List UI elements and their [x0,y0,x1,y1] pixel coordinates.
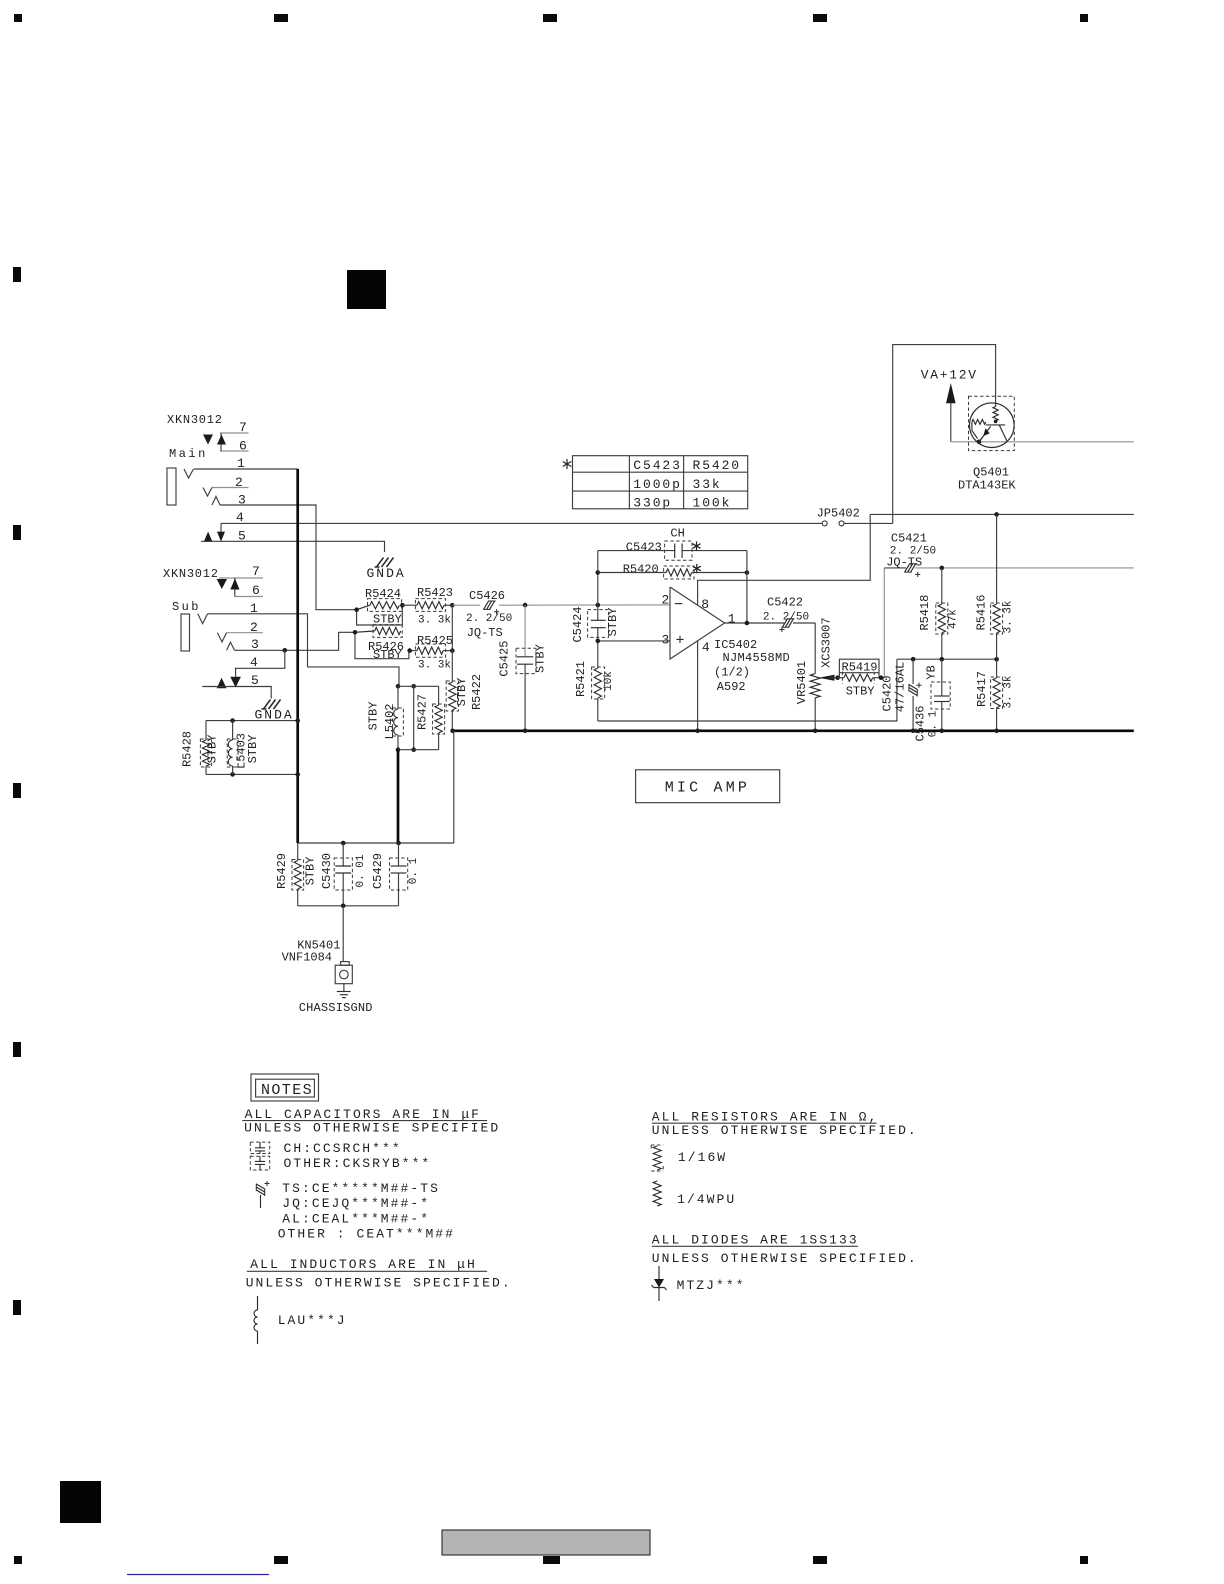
svg-text:3. 3k: 3. 3k [418,660,451,672]
svg-text:4: 4 [236,510,244,525]
svg-text:3. 3k: 3. 3k [1002,675,1014,708]
svg-text:NOTES: NOTES [261,1082,313,1099]
note zener diode symbol [658,1266,660,1283]
wire op-amp output [725,622,784,624]
wire main vertical bus from Main pin1 [296,469,299,843]
wire from ground rail down to RC filter [453,731,455,843]
svg-text:XKN3012: XKN3012 [163,567,219,581]
capacitor C5424 STBY [597,605,599,620]
wire bypass of L5402 [413,686,415,749]
svg-text:4: 4 [702,640,710,655]
svg-text:JQ-TS: JQ-TS [886,555,922,569]
wire analog ground rail [452,729,1134,732]
wire op-amp pin3 input [598,640,670,642]
feedback node vertical [597,551,599,605]
svg-text:STBY: STBY [303,857,317,886]
wire Main pin1 to bus [194,468,298,470]
wire feedback to output node [746,551,748,623]
svg-text:C5422: C5422 [767,596,803,610]
svg-text:XCS3007: XCS3007 [820,617,834,667]
svg-text:YB: YB [924,665,938,679]
inductor L5402 STBY [396,684,401,689]
svg-text:MIC AMP: MIC AMP [665,780,750,797]
svg-text:OTHER:CKSRYB***: OTHER:CKSRYB*** [284,1156,432,1171]
wire output to VR5401 [814,623,816,674]
Sub pin3 contact [227,642,235,650]
resistor R5429 STBY [297,843,299,861]
svg-text:Sub: Sub [172,600,201,614]
svg-text:1/16W: 1/16W [678,1150,727,1165]
resistor R5422 STBY vertical [451,605,453,682]
svg-text:MTZJ***: MTZJ*** [677,1278,746,1293]
svg-text:TS:CE*****M##-TS: TS:CE*****M##-TS [282,1181,440,1196]
svg-text:VA+12V: VA+12V [921,368,978,383]
capacitor C5420 47/16AL [912,659,914,684]
wire Main pin4 to JP5402 [221,522,822,524]
svg-text:R5419: R5419 [842,660,878,674]
node line mid right [897,658,997,660]
svg-text:STBY: STBY [455,678,469,707]
svg-text:7: 7 [252,564,260,579]
svg-text:R5417: R5417 [975,671,989,707]
wire bottom of RC filter [298,905,399,907]
svg-text:JQ-TS: JQ-TS [467,626,503,640]
svg-text:STBY: STBY [246,735,260,764]
svg-text:STBY: STBY [373,648,402,662]
svg-text:STBY: STBY [367,702,381,731]
wire thick drop to RC filter [397,750,400,843]
svg-text:3: 3 [662,633,670,648]
notes title box [251,1074,319,1101]
registration marks left edge [13,267,21,282]
svg-text:R5429: R5429 [275,853,289,889]
chassis ground symbol [343,984,345,992]
svg-text:47k: 47k [948,609,960,629]
svg-text:3. 3k: 3. 3k [1002,600,1014,633]
blue underline bottom-left [127,1574,269,1576]
svg-text:0. 01: 0. 01 [355,854,367,887]
wire Sub pins7-6 bracket [234,578,236,597]
Sub pin1 contact [198,614,208,624]
svg-text:C5421: C5421 [891,532,927,546]
node Sub pin3/pin4 [283,648,288,653]
svg-text:JP5402: JP5402 [817,507,860,521]
svg-text:UNLESS OTHERWISE SPECIFIED.: UNLESS OTHERWISE SPECIFIED. [652,1123,918,1138]
svg-text:ALL DIODES ARE 1SS133: ALL DIODES ARE 1SS133 [652,1233,859,1248]
wire Main pin5 to GNDA [201,541,385,552]
transistor Q5401 DTA143EK [970,403,1015,448]
svg-text:R5423: R5423 [417,586,453,600]
svg-text:C5426: C5426 [469,589,505,603]
resistor R5428 STBY / inductor L5403 STBY block [206,720,298,722]
svg-text:CH:CCSRCH***: CH:CCSRCH*** [284,1141,402,1156]
Main pin4-5 direction arrows [220,523,222,531]
svg-text:C5423: C5423 [626,541,662,555]
note inductor symbol [257,1296,259,1310]
svg-text:C5423: C5423 [633,458,682,473]
Main pin2 contact [203,488,212,497]
svg-text:2. 2/50: 2. 2/50 [466,613,512,625]
large black square upper [347,270,386,309]
wire op-amp pin8 supply [698,514,871,605]
wire Sub pin3 to R5426 [235,632,356,650]
svg-text:1: 1 [728,612,736,627]
potentiometer VR5401 XCS3007 [810,674,820,698]
svg-text:10k: 10k [603,671,615,691]
Main pin1 contact [184,469,194,478]
note resistor 1/4WPU symbol [653,1181,661,1206]
note resistor 1/16W symbol [653,1146,661,1170]
svg-text:6: 6 [252,583,260,598]
capacitor C5429 0.1 [398,843,400,866]
registration marks bottom edge [14,1556,22,1564]
wire pins7-6 bracket [220,433,222,451]
capacitor C5425 STBY [524,605,526,657]
svg-text:Q5401: Q5401 [973,466,1009,480]
Sub pin2 contact [217,633,226,642]
Sub pin7-6 direction arrows [217,579,227,589]
svg-text:0. 1: 0. 1 [928,710,940,737]
gray redaction box bottom [442,1530,650,1555]
wire Sub pin1 to L5402 node [208,614,399,687]
svg-text:8: 8 [701,597,709,612]
svg-text:C5424: C5424 [571,606,585,642]
wire Q5401 emitter/collector line [951,441,1134,443]
svg-text:R5421: R5421 [574,661,588,697]
svg-text:XKN3012: XKN3012 [167,413,223,427]
svg-text:R5418: R5418 [918,595,932,631]
svg-text:R5422: R5422 [470,674,484,710]
svg-text:UNLESS OTHERWISE SPECIFIED.: UNLESS OTHERWISE SPECIFIED. [652,1251,918,1266]
svg-text:R5428: R5428 [181,731,195,767]
svg-text:3. 3k: 3. 3k [418,615,451,627]
svg-text:R5427: R5427 [416,694,430,730]
resistor R5417 3.3k [996,659,998,678]
svg-text:C5436: C5436 [913,705,927,741]
svg-text:VR5401: VR5401 [795,661,809,704]
Main pin3 contact [212,497,220,506]
svg-text:100k: 100k [693,495,732,510]
svg-text:R5416: R5416 [974,594,988,630]
svg-text:1000p: 1000p [633,477,682,492]
svg-text:1/4WPU: 1/4WPU [677,1192,736,1207]
alternate values table [573,456,748,509]
note capacitor symbol CH [250,1142,269,1153]
svg-text:2: 2 [662,593,670,608]
block label MIC AMP [636,770,780,803]
Main pin7-6 direction arrows [203,435,213,445]
wire top of RC filter [298,842,454,844]
wire Main pin3 [220,505,357,610]
wire Sub pin5 to GNDA [202,687,271,699]
svg-text:ALL INDUCTORS ARE IN μH: ALL INDUCTORS ARE IN μH [250,1257,477,1272]
capacitor C5430 0.01 [342,843,344,866]
svg-text:5: 5 [251,673,259,688]
node pin2 input [523,603,528,608]
svg-text:UNLESS OTHERWISE SPECIFIED.: UNLESS OTHERWISE SPECIFIED. [246,1276,512,1291]
svg-text:33k: 33k [693,477,722,492]
svg-text:STBY: STBY [206,735,220,764]
node L5402 bottom [396,747,401,752]
svg-text:C5429: C5429 [371,853,385,889]
resistor R5416 3.3k [996,514,998,604]
svg-text:A592: A592 [717,680,746,694]
svg-text:L5402: L5402 [383,703,397,739]
svg-text:LAU***J: LAU***J [278,1313,347,1328]
registration marks top edge [14,14,22,22]
wire op-amp pin4 to ground rail [697,641,699,731]
note electrolytic symbol [256,1184,264,1197]
svg-text:GNDA: GNDA [367,566,406,581]
wire op-amp bias return [598,659,897,721]
resistor R5427 [438,686,440,705]
svg-text:IC5402: IC5402 [714,638,757,652]
resistor R5421 10k [597,641,599,668]
svg-text:CH: CH [670,526,684,540]
svg-text:UNLESS OTHERWISE SPECIFIED: UNLESS OTHERWISE SPECIFIED [244,1121,500,1136]
wire Q5401 base loop [893,345,996,524]
Main jack body [167,468,176,505]
chassis terminal KN5401 VNF1084 [342,906,344,962]
wire Sub pin4 up to pin3 [235,650,285,668]
wire C5421 branch down [883,568,885,678]
svg-text:OTHER : CEAT***M##: OTHER : CEAT***M## [278,1226,455,1241]
ground GNDA (Main) [375,558,394,568]
svg-text:Main: Main [169,447,208,461]
svg-text:STBY: STBY [606,608,620,637]
svg-text:0. 1: 0. 1 [408,857,420,884]
svg-text:STBY: STBY [533,644,547,673]
svg-text:C5425: C5425 [498,641,512,677]
resistor R5419 STBY [839,659,879,673]
svg-text:CHASSISGND: CHASSISGND [299,1001,373,1015]
svg-text:R5425: R5425 [417,634,453,648]
svg-text:C5430: C5430 [320,853,334,889]
Sub pin4-5 direction arrows [235,668,237,676]
svg-text:VNF1084: VNF1084 [282,951,332,965]
svg-text:R5420: R5420 [693,458,742,473]
ground GNDA (Sub) [262,700,281,710]
Sub jack body [181,614,190,651]
capacitor C5436 0.1 YB [941,659,943,696]
svg-text:R5420: R5420 [623,563,659,577]
svg-text:STBY: STBY [846,684,875,698]
svg-text:NJM4558MD: NJM4558MD [723,651,791,665]
svg-text:47/16AL: 47/16AL [893,662,907,712]
svg-text:330p: 330p [633,495,672,510]
svg-text:DTA143EK: DTA143EK [958,479,1016,493]
resistor R5418 47k [941,568,943,604]
op-amp IC5402 NJM4558MD (1/2) [670,587,725,659]
svg-text:(1/2): (1/2) [714,666,750,680]
wire supply VA line [870,513,1134,515]
svg-text:JQ:CEJQ***M##-*: JQ:CEJQ***M##-* [282,1196,430,1211]
svg-text:AL:CEAL***M##-*: AL:CEAL***M##-* [282,1212,430,1227]
large black square lower-left [60,1481,101,1523]
